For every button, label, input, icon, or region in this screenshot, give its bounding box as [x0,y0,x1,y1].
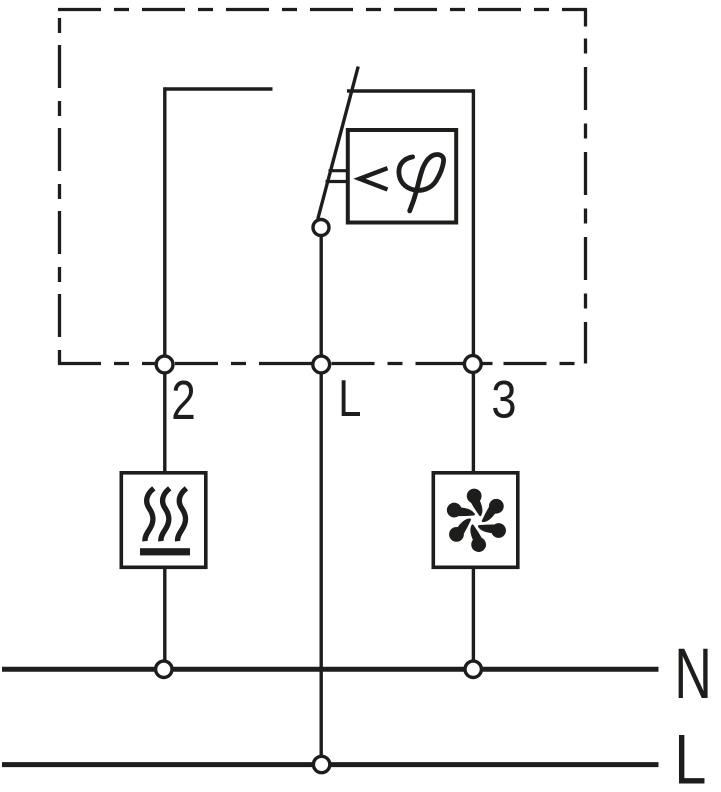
device boundary: dash-dot enclosure right edge [584,10,587,364]
line L (phase bus) [2,762,659,767]
mechanical link from lever to sensor box (upper line) [329,169,349,172]
svg-text:2: 2 [171,369,195,431]
device boundary: dash-dot enclosure bottom edge (terminal L to terminal 3) [332,362,464,365]
mechanical link from lever to sensor box (lower line) [326,180,349,183]
label: less-than sign inside sensor box [360,168,388,189]
svg-text:L: L [338,369,361,428]
device boundary: dash-dot enclosure top edge [58,8,587,11]
switch pivot circle [313,220,329,236]
device boundary: dash-dot enclosure bottom edge (corner to terminal 2) [58,362,156,365]
wire: fan to N line [472,569,475,669]
wire: terminal 3 branch, top horizontal segment [347,89,473,92]
junction circle: heater to N [156,661,172,677]
junction circle: fan to N [465,661,481,677]
label: phi (relative humidity) inside sensor box [399,154,444,210]
fan impeller: 6 teardrop blades [444,487,510,554]
heater wavy line 3 [178,488,187,541]
device boundary: dash-dot enclosure bottom edge (terminal 3 to corner) [461,362,588,365]
humidity sensor box U1 [348,130,456,223]
terminal L circle [313,356,330,373]
svg-text:3: 3 [491,371,516,429]
svg-text:L: L [674,720,706,792]
fan / ventilator (load on terminal 3) box [433,473,518,568]
wire: terminal 2 branch, top horizontal segment [165,87,273,90]
wire: heater to N line [163,569,166,669]
wire: terminal 3 branch, vertical down to fan [472,89,475,471]
device boundary: dash-dot enclosure bottom edge (terminal 2 to terminal L) [175,362,312,365]
heater baseplate bar [140,548,190,555]
wire: terminal 2 branch, vertical from top wire down to heater [163,87,166,471]
terminal 2 circle [156,356,173,373]
heater wavy line 1 [145,488,154,541]
wire: switch pivot down through terminal L to line L [320,235,323,765]
line N (neutral bus) [2,667,659,672]
switch lever (hygrostat contact) [318,67,358,220]
heater wavy line 2 [161,488,170,541]
junction circle: switch feed to L [313,756,329,772]
terminal 3 circle [464,356,481,373]
device boundary: dash-dot enclosure left edge [58,18,61,364]
heater element (load on terminal 2) box [121,473,206,568]
svg-text:N: N [674,635,711,714]
